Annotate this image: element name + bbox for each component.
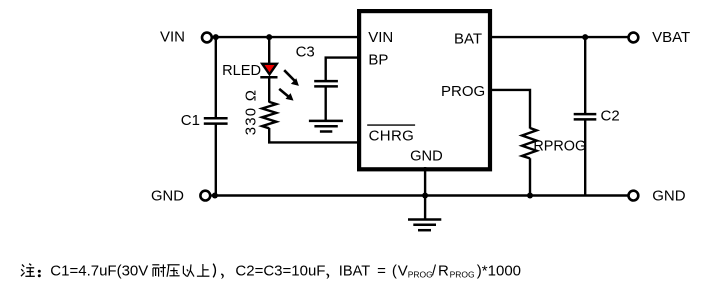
node junction dot LED branch [266, 34, 272, 40]
ground symbol C3 [309, 121, 343, 132]
svg-text:RLED: RLED [222, 63, 261, 79]
svg-text:VIN: VIN [160, 28, 185, 45]
note text: fullwidth comma 2 [326, 273, 329, 279]
resistor RPROG [522, 128, 537, 158]
node VBAT terminal circle [629, 33, 639, 43]
note text: ya glyph 压 [167, 265, 180, 277]
node junction dot BAT / C2 [582, 34, 588, 40]
node junction dot VIN rail [213, 34, 219, 40]
node junction dot GND left [212, 193, 218, 199]
wire resistor to CHRG corner [269, 128, 359, 142]
svg-text:CHRG: CHRG [369, 128, 415, 145]
pin label CHRG with overline [367, 125, 415, 145]
svg-text:PROG: PROG [408, 270, 433, 280]
note text: fullwidth colon [38, 270, 41, 277]
LED RLED [260, 64, 277, 77]
note text: nai glyph 耐 [152, 264, 166, 276]
svg-text:IBAT: IBAT [339, 263, 370, 279]
note text: fullwidth comma 1 [221, 273, 224, 279]
wire BP to C3 [326, 58, 359, 82]
wire bottom rail [212, 194, 628, 196]
note text: zhu glyph 注 [21, 264, 35, 277]
capacitor C2 [574, 114, 597, 119]
note text: yi glyph 以 [183, 264, 194, 276]
LED light arrow 2 [279, 89, 293, 101]
capacitor C1 [204, 118, 228, 123]
svg-text:RPROG: RPROG [533, 139, 586, 155]
wire PROG to RPROG [488, 90, 530, 129]
wire BAT to VBAT [488, 36, 628, 38]
svg-text:GND: GND [410, 149, 443, 165]
svg-text:VIN: VIN [368, 29, 393, 46]
svg-text:C2=C3=10uF: C2=C3=10uF [235, 262, 325, 279]
node GND right terminal circle [629, 191, 639, 201]
wire top rail VIN to IC [212, 36, 359, 38]
node VIN terminal circle [202, 33, 212, 43]
charger IC U1 box [359, 11, 490, 169]
LED light arrow 1 [284, 70, 299, 86]
svg-text:VBAT: VBAT [652, 29, 690, 46]
svg-text:C1: C1 [181, 112, 200, 129]
svg-text:330 Ω: 330 Ω [242, 89, 259, 135]
resistor 330 ohm [262, 102, 276, 128]
svg-text:PROG: PROG [441, 83, 485, 100]
note text: fullwidth right paren [213, 264, 215, 278]
node GND left terminal circle [200, 191, 210, 201]
svg-text:BP: BP [368, 52, 388, 69]
svg-text:PROG: PROG [450, 270, 475, 280]
wire left rail lower (C1 to GND) [215, 124, 217, 196]
svg-text:GND: GND [652, 188, 686, 205]
capacitor C3 [314, 81, 338, 86]
svg-text:BAT: BAT [454, 31, 482, 48]
svg-text:)*1000: )*1000 [477, 262, 521, 279]
wire IC GND stem [424, 167, 426, 220]
note text: shang glyph 上 [197, 264, 210, 276]
svg-text:C2: C2 [601, 108, 620, 125]
wire C2 branch upper [584, 37, 586, 114]
node junction dot RPROG / rail [527, 193, 533, 199]
node junction dot IC GND / rail [422, 193, 428, 199]
wire LED to resistor [268, 77, 270, 102]
wire C2 branch lower [584, 119, 586, 195]
svg-text:C1=4.7uF(30V: C1=4.7uF(30V [50, 262, 148, 279]
svg-text:C3: C3 [296, 43, 315, 60]
svg-text:/R: /R [432, 262, 451, 279]
wire LED branch top [268, 37, 270, 64]
wire C3 to ground [325, 86, 327, 121]
wire RPROG to bottom rail [529, 158, 531, 195]
svg-text:= (V: = (V [377, 262, 409, 279]
svg-text:GND: GND [151, 188, 184, 204]
ground symbol main [408, 220, 441, 231]
wire left rail upper (VIN to C1) [215, 37, 217, 118]
